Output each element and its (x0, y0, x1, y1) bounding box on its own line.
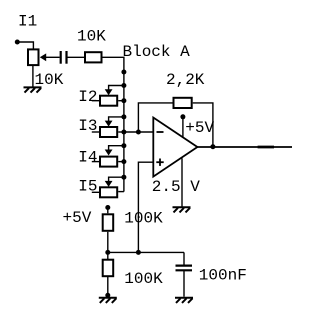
node bus dot I3 wiper (121, 114, 126, 119)
node bus dot I2 right (121, 98, 126, 103)
wire wiper to capacitor (46, 56, 60, 58)
node output dot (210, 144, 215, 149)
ground op-amp V- (173, 207, 191, 212)
potentiometer I5 body (100, 187, 117, 197)
svg-text:10K: 10K (35, 71, 64, 89)
ground bottom left (99, 298, 117, 303)
wire feedback resistor to output (193, 103, 213, 147)
svg-text:I2: I2 (78, 88, 97, 106)
potentiometer I4 body (100, 157, 117, 167)
node Block A bus dot (121, 70, 126, 75)
wire output thick segment (258, 146, 274, 149)
wire I5 left stub (92, 191, 99, 193)
wire non-inverting input down to divider (138, 162, 153, 252)
svg-text:100K: 100K (124, 270, 163, 288)
label 10K top resistor (77, 28, 106, 46)
label 100K lower (124, 270, 163, 288)
wire I3 wiper from bus (109, 117, 124, 121)
svg-text:10K: 10K (77, 28, 106, 46)
svg-text:+5V: +5V (185, 119, 214, 137)
resistor R2 2,2K body (174, 98, 192, 108)
label I4 (78, 149, 97, 167)
wire feedback up and to resistor (138, 103, 172, 132)
potentiometer I2 wiper arrow (105, 89, 113, 95)
wire I1 input to potentiometer top (17, 42, 33, 49)
node +5V supply dot bottom (105, 205, 110, 210)
label Block A (123, 43, 191, 61)
op-amp +5V supply pin (182, 118, 184, 138)
wire I3 left stub (92, 131, 99, 133)
wire I3 right stub (118, 131, 124, 133)
label +5V op-amp (185, 119, 214, 137)
svg-text:100K: 100K (124, 210, 163, 228)
svg-text:2,2K: 2,2K (166, 71, 205, 89)
resistor R4 100K body lower (103, 260, 114, 277)
svg-text:100nF: 100nF (199, 267, 247, 285)
wire capacitor to ground (183, 270, 185, 296)
wire I2 right stub (118, 100, 124, 102)
potentiometer I3 body (100, 127, 117, 137)
wire I4 right stub (118, 161, 124, 163)
op-amp U1 triangle (153, 118, 197, 177)
node non-inverting line junction dot (136, 250, 141, 255)
label 2.5 V (152, 178, 200, 196)
node +5V pin dot (180, 114, 185, 119)
wire divider junction to capacitor branch (108, 251, 184, 253)
capacitor C2 100nF plates (176, 266, 193, 271)
wire I4 left stub (92, 161, 99, 163)
capacitor C1 plates (61, 51, 67, 64)
wire R4 to ground (107, 277, 109, 297)
ground capacitor (175, 298, 193, 303)
wire I2 left stub (92, 100, 99, 102)
svg-text:Block A: Block A (123, 43, 191, 61)
svg-text:I1: I1 (18, 12, 37, 30)
node bus dot I4 right (121, 159, 126, 164)
label I1 (18, 12, 37, 30)
wire inverting input from bus to op-amp (124, 131, 153, 133)
node ground junction dot (105, 293, 110, 298)
svg-text:2.5 V: 2.5 V (152, 178, 200, 196)
potentiometer I3 wiper arrow (105, 121, 113, 127)
ground I1 (24, 87, 42, 92)
op-amp plus symbol (156, 159, 163, 166)
potentiometer I1 body 10K (28, 49, 39, 65)
label I3 (78, 117, 97, 135)
node feedback junction dot (136, 130, 141, 135)
wire I1 pot bottom to ground (32, 66, 34, 87)
resistor R3 100K body upper (103, 214, 114, 231)
node bus dot I2 wiper (121, 83, 126, 88)
wire I4 wiper from bus (109, 146, 124, 151)
op-amp minus symbol (157, 131, 164, 133)
label 100nF (199, 267, 247, 285)
node bus dot I5 wiper (121, 175, 126, 180)
resistor R1 10K body (85, 52, 102, 62)
node bus dot I3 right (121, 130, 126, 135)
label I5 (78, 178, 97, 196)
label 10K potentiometer I1 (35, 71, 64, 89)
node I1 input dot (15, 40, 20, 45)
label 100K upper (124, 210, 163, 228)
potentiometer I2 body (100, 96, 117, 106)
op-amp V- pin wire to ground (181, 158, 183, 206)
svg-text:I4: I4 (78, 149, 97, 167)
potentiometer I1 wiper arrow (40, 53, 46, 61)
wire I5 wiper from bus (109, 177, 124, 181)
label 2,2K (166, 71, 205, 89)
wire R3 to divider junction (107, 232, 109, 253)
wire capacitor to resistor 10K (68, 56, 85, 58)
node bus dot I4 wiper (121, 143, 126, 148)
wire I5 right stub (118, 191, 124, 193)
label +5V bottom (63, 209, 92, 227)
wire op-amp output (197, 146, 292, 148)
node divider junction dot (105, 250, 110, 255)
svg-text:+5V: +5V (63, 209, 92, 227)
label I2 (78, 88, 97, 106)
wire I2 wiper from bus (109, 86, 124, 91)
wire +5V dot to resistor (107, 208, 109, 213)
wire resistor to Block A corner and bus down (102, 57, 124, 191)
potentiometer I4 wiper arrow (105, 150, 113, 156)
potentiometer I5 wiper arrow (105, 181, 113, 187)
wire capacitor branch down (183, 252, 185, 265)
wire junction to R4 (107, 252, 109, 259)
